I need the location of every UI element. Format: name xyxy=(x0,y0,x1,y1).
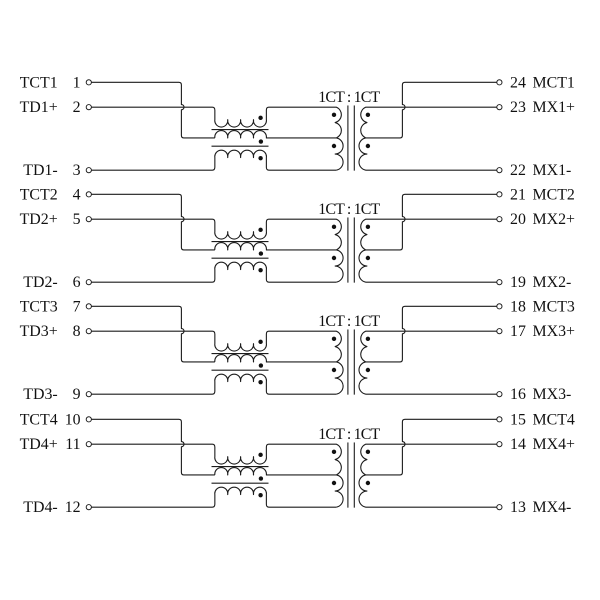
transformer T1 core line left xyxy=(347,105,349,170)
wire pin 1 TCT1 to choke L1 middle winding (hop over TD1+ wire) xyxy=(92,82,215,138)
svg-text:TD4+: TD4+ xyxy=(20,436,58,453)
transformer T1 core line right xyxy=(353,105,355,170)
choke L1 bottom winding polarity dot xyxy=(258,156,262,160)
transformer T1 secondary upper half winding / wire to pin 23 MX1+ xyxy=(361,107,497,138)
svg-text:MX4-: MX4- xyxy=(533,499,572,516)
wire pin 12 TD4- / choke L4 bottom winding / primary bottom lead xyxy=(92,487,337,507)
transformer T3 secondary lower dot xyxy=(366,368,370,372)
transformer T3 primary lower dot xyxy=(332,368,336,372)
transformer T2 primary lower dot xyxy=(332,256,336,260)
svg-text:10: 10 xyxy=(65,411,81,428)
svg-text:8: 8 xyxy=(73,323,81,340)
pin 9 terminal circle xyxy=(86,392,91,397)
pin 1 terminal circle xyxy=(86,80,91,85)
svg-text:TCT2: TCT2 xyxy=(20,186,58,203)
svg-text:15: 15 xyxy=(510,411,526,428)
choke L3 middle winding xyxy=(215,355,336,362)
svg-text:22: 22 xyxy=(510,162,526,179)
transformer T3 core line left xyxy=(347,329,349,394)
transformer T4 core line right xyxy=(353,442,355,507)
svg-text:MX2+: MX2+ xyxy=(533,211,576,228)
wire pin 9 TD3- / choke L3 bottom winding / primary bottom lead xyxy=(92,374,337,394)
svg-text:1CT : 1CT: 1CT : 1CT xyxy=(318,313,380,330)
transformer T4 secondary upper dot xyxy=(366,450,370,454)
transformer T1 primary lower half winding xyxy=(335,138,343,170)
svg-text:TD1-: TD1- xyxy=(23,162,57,179)
svg-text:12: 12 xyxy=(65,499,81,516)
svg-text:TCT1: TCT1 xyxy=(20,74,58,91)
transformer T2 secondary lower dot xyxy=(366,256,370,260)
transformer T4 primary lower dot xyxy=(332,481,336,485)
choke L4 middle winding xyxy=(215,468,336,475)
pin 14 terminal circle xyxy=(497,442,502,447)
transformer T4 primary upper dot xyxy=(332,450,336,454)
svg-text:TD4-: TD4- xyxy=(23,499,57,516)
transformer T3 secondary upper half winding / wire to pin 17 MX3+ xyxy=(361,331,497,362)
svg-text:MCT4: MCT4 xyxy=(533,411,575,428)
wire pin 11 TD4+ / choke L4 top winding / primary top lead xyxy=(92,444,342,475)
transformer T2 primary upper dot xyxy=(332,225,336,229)
pin 4 terminal circle xyxy=(86,192,91,197)
choke L3 middle winding polarity dot xyxy=(259,363,263,367)
transformer T2 primary lower half winding xyxy=(335,250,343,282)
svg-text:24: 24 xyxy=(510,74,526,91)
pin 2 terminal circle xyxy=(86,105,91,110)
svg-text:17: 17 xyxy=(510,323,526,340)
transformer T2 secondary lower half winding / wire to pin 19 MX2- xyxy=(359,250,497,282)
svg-text:4: 4 xyxy=(73,186,81,203)
pin 13 terminal circle xyxy=(497,505,502,510)
pin 11 terminal circle xyxy=(86,442,91,447)
pin 6 terminal circle xyxy=(86,280,91,285)
transformer T2 core line left xyxy=(347,217,349,282)
wire secondary centre tap to pin 18 MCT3 (hop over MX3+ wire) xyxy=(366,306,497,362)
transformer T2 core line right xyxy=(353,217,355,282)
svg-text:TCT4: TCT4 xyxy=(20,411,58,428)
pin 16 terminal circle xyxy=(497,392,502,397)
svg-text:7: 7 xyxy=(73,298,81,315)
transformer T4 secondary lower dot xyxy=(366,481,370,485)
pin 7 terminal circle xyxy=(86,304,91,309)
pin 21 terminal circle xyxy=(497,192,502,197)
choke L1 core bar upper xyxy=(212,129,269,131)
svg-text:1: 1 xyxy=(73,74,81,91)
transformer T1 secondary upper dot xyxy=(366,113,370,117)
pin 5 terminal circle xyxy=(86,217,91,222)
svg-text:TD2+: TD2+ xyxy=(20,211,58,228)
svg-text:MX4+: MX4+ xyxy=(533,436,576,453)
pin 24 terminal circle xyxy=(497,80,502,85)
wire pin 6 TD2- / choke L2 bottom winding / primary bottom lead xyxy=(92,262,337,282)
wire secondary centre tap to pin 15 MCT4 (hop over MX4+ wire) xyxy=(366,419,497,475)
wire pin 4 TCT2 to choke L2 middle winding (hop over TD2+ wire) xyxy=(92,194,215,250)
svg-text:9: 9 xyxy=(73,386,81,403)
choke L2 middle winding xyxy=(215,243,336,250)
pin 18 terminal circle xyxy=(497,304,502,309)
pin 12 terminal circle xyxy=(86,505,91,510)
transformer T3 core line right xyxy=(353,329,355,394)
transformer T1 primary upper dot xyxy=(332,113,336,117)
svg-text:3: 3 xyxy=(73,162,81,179)
svg-text:TD1+: TD1+ xyxy=(20,99,58,116)
choke L1 middle winding xyxy=(215,131,336,138)
choke L4 middle winding polarity dot xyxy=(259,476,263,480)
transformer T2 secondary upper dot xyxy=(366,225,370,229)
pin 23 terminal circle xyxy=(497,105,502,110)
pin 3 terminal circle xyxy=(86,168,91,173)
choke L1 core bar lower xyxy=(212,145,269,147)
transformer T4 secondary lower half winding / wire to pin 13 MX4- xyxy=(359,475,497,507)
wire pin 5 TD2+ / choke L2 top winding / primary top lead xyxy=(92,219,342,250)
pin 10 terminal circle xyxy=(86,417,91,422)
svg-text:2: 2 xyxy=(73,99,81,116)
pin 22 terminal circle xyxy=(497,168,502,173)
svg-text:TD3+: TD3+ xyxy=(20,323,58,340)
svg-text:MCT2: MCT2 xyxy=(533,186,575,203)
transformer T4 primary lower half winding xyxy=(335,475,343,507)
svg-text:21: 21 xyxy=(510,186,526,203)
svg-text:5: 5 xyxy=(73,211,81,228)
svg-text:MCT3: MCT3 xyxy=(533,298,575,315)
svg-text:MX1-: MX1- xyxy=(533,162,572,179)
svg-text:1CT : 1CT: 1CT : 1CT xyxy=(318,426,380,443)
choke L2 core bar upper xyxy=(212,241,269,243)
svg-text:TD2-: TD2- xyxy=(23,274,57,291)
svg-text:13: 13 xyxy=(510,499,526,516)
transformer T3 secondary upper dot xyxy=(366,337,370,341)
svg-text:1CT : 1CT: 1CT : 1CT xyxy=(318,201,380,218)
svg-text:TD3-: TD3- xyxy=(23,386,57,403)
pin 8 terminal circle xyxy=(86,329,91,334)
wire pin 8 TD3+ / choke L3 top winding / primary top lead xyxy=(92,331,342,362)
choke L4 core bar upper xyxy=(212,466,269,468)
choke L2 bottom winding polarity dot xyxy=(258,268,262,272)
svg-text:18: 18 xyxy=(510,298,526,315)
svg-text:16: 16 xyxy=(510,386,526,403)
choke L3 core bar upper xyxy=(212,353,269,355)
choke L3 top winding polarity dot xyxy=(258,340,262,344)
choke L2 top winding polarity dot xyxy=(258,228,262,232)
svg-text:TCT3: TCT3 xyxy=(20,298,58,315)
svg-text:MCT1: MCT1 xyxy=(533,74,575,91)
svg-text:19: 19 xyxy=(510,274,526,291)
svg-text:11: 11 xyxy=(65,436,80,453)
wire secondary centre tap to pin 24 MCT1 (hop over MX1+ wire) xyxy=(366,82,497,138)
transformer T4 secondary upper half winding / wire to pin 14 MX4+ xyxy=(361,444,497,475)
choke L2 core bar lower xyxy=(212,257,269,259)
wire secondary centre tap to pin 21 MCT2 (hop over MX2+ wire) xyxy=(366,194,497,250)
wire pin 3 TD1- / choke L1 bottom winding / primary bottom lead xyxy=(92,150,337,170)
transformer T2 secondary upper half winding / wire to pin 20 MX2+ xyxy=(361,219,497,250)
choke L1 middle winding polarity dot xyxy=(259,139,263,143)
pin 17 terminal circle xyxy=(497,329,502,334)
pin 19 terminal circle xyxy=(497,280,502,285)
svg-text:1CT : 1CT: 1CT : 1CT xyxy=(318,89,380,106)
choke L3 core bar lower xyxy=(212,369,269,371)
transformer T1 secondary lower half winding / wire to pin 22 MX1- xyxy=(359,138,497,170)
transformer T4 core line left xyxy=(347,442,349,507)
choke L1 top winding polarity dot xyxy=(258,116,262,120)
svg-text:MX2-: MX2- xyxy=(533,274,572,291)
svg-text:MX1+: MX1+ xyxy=(533,99,576,116)
choke L3 bottom winding polarity dot xyxy=(258,380,262,384)
wire pin 10 TCT4 to choke L4 middle winding (hop over TD4+ wire) xyxy=(92,419,215,475)
svg-text:MX3-: MX3- xyxy=(533,386,572,403)
transformer T1 secondary lower dot xyxy=(366,144,370,148)
pin 15 terminal circle xyxy=(497,417,502,422)
transformer T3 primary upper dot xyxy=(332,337,336,341)
wire pin 7 TCT3 to choke L3 middle winding (hop over TD3+ wire) xyxy=(92,306,215,362)
svg-text:20: 20 xyxy=(510,211,526,228)
choke L4 core bar lower xyxy=(212,482,269,484)
svg-text:MX3+: MX3+ xyxy=(533,323,576,340)
choke L4 bottom winding polarity dot xyxy=(258,493,262,497)
svg-text:14: 14 xyxy=(510,436,526,453)
transformer T3 primary lower half winding xyxy=(335,362,343,394)
choke L2 middle winding polarity dot xyxy=(259,251,263,255)
pin 20 terminal circle xyxy=(497,217,502,222)
transformer T1 primary lower dot xyxy=(332,144,336,148)
wire pin 2 TD1+ / choke L1 top winding / primary top lead xyxy=(92,107,342,138)
svg-text:6: 6 xyxy=(73,274,81,291)
choke L4 top winding polarity dot xyxy=(258,453,262,457)
transformer T3 secondary lower half winding / wire to pin 16 MX3- xyxy=(359,362,497,394)
svg-text:23: 23 xyxy=(510,99,526,116)
